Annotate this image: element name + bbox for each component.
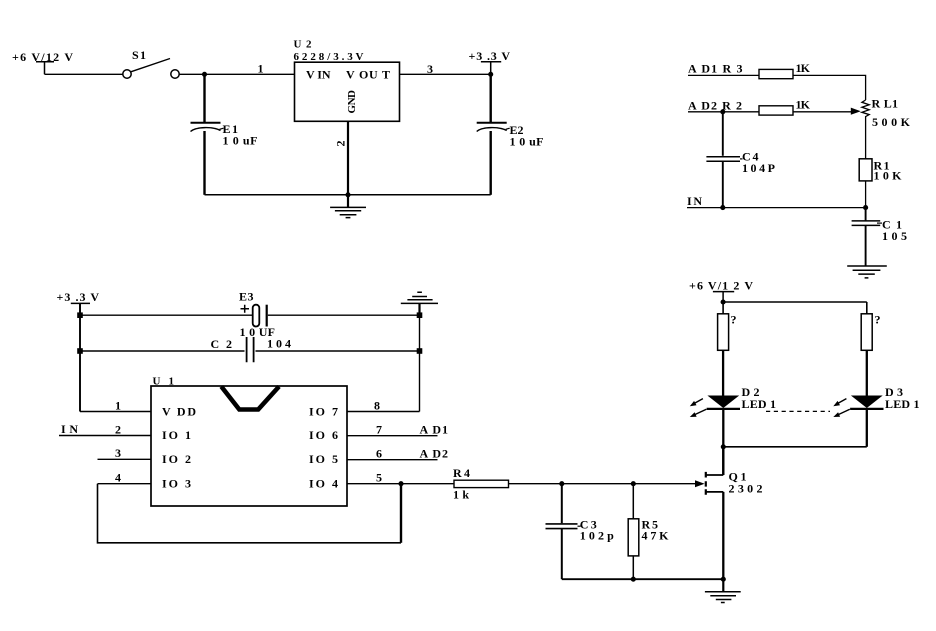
label E2 value <box>506 123 544 149</box>
svg-text:IN: IN <box>61 422 78 436</box>
svg-text:IO 4: IO 4 <box>309 476 338 490</box>
wire R3 to RL1 top <box>793 75 866 100</box>
junction node pin5 <box>398 481 403 486</box>
svg-text:E 3: E 3 <box>239 289 254 303</box>
pin number 7 <box>376 422 382 436</box>
svg-text:V IN: V IN <box>306 67 331 81</box>
capacitor C3 <box>546 484 578 580</box>
svg-text:+6 V/1 2 V: +6 V/1 2 V <box>689 278 753 292</box>
pin name VIN <box>306 67 331 81</box>
label 10K <box>874 169 903 183</box>
power +6V/12V label (bottom-right) <box>689 278 753 292</box>
svg-text:1 0 uF: 1 0 uF <box>223 134 258 148</box>
resistor R3 <box>759 69 793 78</box>
svg-text:1 0 4: 1 0 4 <box>267 337 291 351</box>
svg-text:+3 .3 V: +3 .3 V <box>469 49 511 63</box>
label C2 <box>211 337 233 351</box>
svg-text:IO 3: IO 3 <box>162 476 191 490</box>
pin name IO2 <box>162 452 191 466</box>
label C1 value <box>877 218 907 244</box>
svg-text:V DD: V DD <box>162 404 196 418</box>
label U1 <box>153 376 175 388</box>
label 6228/3.3V <box>294 51 364 63</box>
svg-text:5 0 0 K: 5 0 0 K <box>872 115 911 129</box>
label 500K <box>872 115 911 129</box>
cathode rail wire D2-D3 <box>723 446 867 448</box>
svg-text:3: 3 <box>427 62 433 76</box>
transistor Q1 (MOSFET) <box>695 447 723 579</box>
label 1k <box>453 488 469 502</box>
pin number 3 <box>115 446 121 460</box>
supply rail 1 (E3 rail) <box>80 314 420 316</box>
IC notch mark <box>221 387 279 410</box>
IN rail wire <box>687 207 866 209</box>
pin name VOUT <box>346 67 390 81</box>
junction node rail1 right <box>417 312 423 318</box>
junction node cathode rail <box>721 444 726 449</box>
pin 6 wire (AD2) <box>347 459 438 461</box>
svg-text:1 k: 1 k <box>453 488 469 502</box>
label ? (left) <box>731 313 737 327</box>
junction node C3 top <box>559 481 564 486</box>
svg-text:1 0 2 p: 1 0 2 p <box>580 529 614 543</box>
pin name IO5 <box>309 452 338 466</box>
label R4 <box>453 466 470 480</box>
capacitor C1 <box>852 208 881 266</box>
capacitor E2 <box>477 74 507 195</box>
resistor R2 <box>759 106 793 115</box>
pin 3 wire <box>98 458 152 460</box>
wire ? to D2 anode <box>722 350 724 395</box>
ground rail wire (top-left) <box>205 194 491 196</box>
label ? (right) <box>875 313 881 327</box>
label 104 (C2) <box>267 337 291 351</box>
svg-text:1: 1 <box>258 61 264 75</box>
svg-text:4: 4 <box>115 471 121 485</box>
label AD2 R2 <box>688 98 742 112</box>
bottom ground rail wire <box>562 578 724 580</box>
pin name VDD <box>162 404 196 418</box>
wire ? to D3 anode <box>866 350 868 395</box>
left vertical rail x=80 <box>79 303 81 411</box>
svg-text:R L1: R L1 <box>872 97 899 111</box>
wire R1 to IN rail <box>865 181 867 208</box>
resistor R1 <box>859 159 872 181</box>
pin name IO7 <box>309 404 338 418</box>
svg-text:6 2 2 8 / 3 . 3 V: 6 2 2 8 / 3 . 3 V <box>294 51 364 63</box>
potentiometer RL1 <box>862 100 869 159</box>
label 1K (R3) <box>796 61 811 75</box>
pin number 3 of U2 <box>427 62 433 76</box>
svg-text:2 3 0 2: 2 3 0 2 <box>729 482 763 496</box>
wire to left ? resistor <box>722 302 724 314</box>
LED D3 <box>833 396 883 418</box>
label RL1 <box>872 97 899 111</box>
capacitor E1 <box>191 74 221 195</box>
svg-text:6: 6 <box>376 447 382 461</box>
svg-text:1 0 5: 1 0 5 <box>882 229 907 243</box>
capacitor E3 (polarized) <box>253 305 267 327</box>
svg-text:U 1: U 1 <box>153 376 175 388</box>
wire D2 cathode down to Q1 drain <box>722 409 724 475</box>
pin number 1 of U2 <box>258 61 264 75</box>
svg-text:8: 8 <box>374 398 380 412</box>
label D3 <box>885 385 903 399</box>
pin number 5 <box>376 471 382 485</box>
inverted ground symbol (top right of U1) <box>401 292 438 303</box>
ground symbol under C1 <box>847 266 887 278</box>
plus sign of E3 <box>241 305 250 313</box>
label S1 <box>132 48 146 62</box>
wire AD2 to R2 <box>688 111 759 113</box>
pin 8 wire <box>347 411 420 413</box>
svg-text:2: 2 <box>334 141 348 147</box>
junction node rail1 left <box>77 312 83 318</box>
label R1 <box>874 159 890 173</box>
pin name GND (rotated) <box>346 90 358 114</box>
pin number 2 <box>115 422 121 436</box>
svg-text:IO 6: IO 6 <box>309 428 338 442</box>
svg-text:1 0 K: 1 0 K <box>874 169 903 183</box>
pin number 4 <box>115 471 121 485</box>
pin number 6 <box>376 447 382 461</box>
svg-text:C 2: C 2 <box>211 337 233 351</box>
resistor R4 <box>454 480 509 487</box>
svg-text:R 4: R 4 <box>453 466 470 480</box>
pin name IO4 <box>309 476 338 490</box>
wire D3 cathode to rail <box>866 409 868 447</box>
svg-text:S 1: S 1 <box>132 48 146 62</box>
ground symbol under U2 <box>330 195 366 218</box>
wire R4 to Q1 gate <box>509 483 697 485</box>
power bar symbol +6V/12V right <box>713 292 734 302</box>
power +3.3V label (top) <box>469 49 511 63</box>
label 10 UF <box>240 325 276 339</box>
svg-text:5: 5 <box>376 471 382 485</box>
label E1 value <box>220 122 258 148</box>
supply rail 2 (C2 rail) <box>80 350 420 352</box>
U2 pin2 wire to ground rail <box>347 121 349 195</box>
svg-text:IN: IN <box>687 194 702 208</box>
junction node at U2 ground <box>345 192 350 197</box>
junction node C4/IN <box>720 205 725 210</box>
junction node rail2 right <box>417 348 423 354</box>
wire: +6V to switch S1 <box>45 73 123 75</box>
pin number 2 (rotated) <box>334 141 348 147</box>
dashed link between D2 and D3 <box>766 410 830 412</box>
label C3 value <box>578 517 615 542</box>
junction node R5 bottom <box>631 577 636 582</box>
power +6V/12V label (top-left) <box>12 50 73 64</box>
power bar symbol +6V/12V <box>36 62 54 75</box>
switch S1 <box>123 59 179 79</box>
label AD1 R3 <box>688 62 743 76</box>
LED D2 <box>690 396 740 418</box>
label AD1 (pin7) <box>420 422 449 436</box>
wire: U2 pin3 to +3.3V <box>400 73 491 75</box>
svg-text:+3 .3 V: +3 .3 V <box>57 290 100 304</box>
ground symbol under Q1 <box>705 579 741 602</box>
pin number 8 <box>374 398 380 412</box>
pin number 1 <box>115 398 121 412</box>
svg-text:IO 5: IO 5 <box>309 452 338 466</box>
svg-text:GND: GND <box>346 90 358 114</box>
label LED1 (D3) <box>885 397 920 411</box>
wire: switch to U2 pin1 <box>179 73 294 75</box>
junction node R1/C1/IN <box>863 205 868 210</box>
pin name IO6 <box>309 428 338 442</box>
svg-text:1 0 4 P: 1 0 4 P <box>742 161 775 175</box>
wire R2 to RL1 wiper arrow <box>793 108 861 115</box>
label E3 <box>239 289 254 303</box>
pin name IO1 <box>162 428 191 442</box>
svg-text:IO 2: IO 2 <box>162 452 191 466</box>
resistor R5 <box>628 484 639 580</box>
label U2 <box>294 39 313 51</box>
pin 5 wire to R4 <box>347 483 454 485</box>
resistor ? (left) <box>718 314 729 351</box>
svg-text:2: 2 <box>115 422 121 436</box>
svg-text:1 K: 1 K <box>796 98 811 112</box>
capacitor C4 <box>706 112 740 208</box>
wire to right ? resistor <box>866 302 868 314</box>
label IN (left) <box>61 422 78 436</box>
junction node at E1 top <box>202 72 207 77</box>
label R5 value <box>642 517 670 542</box>
junction node at E2 top <box>488 72 493 77</box>
svg-text:4 7 K: 4 7 K <box>642 529 670 543</box>
svg-text:?: ? <box>731 313 737 327</box>
svg-text:U 2: U 2 <box>294 39 313 51</box>
label 2302 <box>729 482 763 496</box>
power bar symbol +3.3V <box>481 62 501 75</box>
label IN (top-right) <box>687 194 702 208</box>
svg-text:A D2: A D2 <box>420 447 449 461</box>
svg-text:?: ? <box>875 313 881 327</box>
label 1K (R2) <box>796 98 811 112</box>
capacitor C2 <box>247 337 254 362</box>
svg-text:IO 1: IO 1 <box>162 428 191 442</box>
junction node rail2 left <box>77 348 83 354</box>
svg-text:1 K: 1 K <box>796 61 811 75</box>
junction node R5 top <box>631 481 636 486</box>
svg-text:LED 1: LED 1 <box>885 397 920 411</box>
junction node top supply <box>721 299 726 304</box>
pin 1 wire <box>80 411 151 413</box>
right vertical rail x=419.5 <box>418 303 420 411</box>
label LED1 (D2) <box>742 397 777 411</box>
svg-text:V OU T: V OU T <box>346 67 390 81</box>
svg-text:LED 1: LED 1 <box>742 397 777 411</box>
pin name IO3 <box>162 476 191 490</box>
label D2 <box>742 385 760 399</box>
pin 4 wire <box>98 483 152 485</box>
junction node Q1 source bottom <box>721 577 726 582</box>
label AD2 (pin6) <box>420 447 449 461</box>
regulator U2 box <box>295 62 400 121</box>
svg-text:1 0 uF: 1 0 uF <box>510 135 544 149</box>
IC U1 box <box>151 386 347 506</box>
svg-text:1: 1 <box>115 398 121 412</box>
junction node AD2/C4 <box>720 109 725 114</box>
pin 7 wire (AD1) <box>347 435 438 437</box>
power bar symbol +3.3V left <box>71 303 90 315</box>
svg-text:IO 7: IO 7 <box>309 404 338 418</box>
pin4 loop wire to pin5 junction <box>98 484 402 543</box>
svg-text:3: 3 <box>115 446 121 460</box>
label Q1 <box>729 469 747 483</box>
label C4 value <box>740 150 775 176</box>
svg-text:A D1: A D1 <box>420 422 449 436</box>
power +3.3V label (left) <box>57 290 100 304</box>
supply top rail wire <box>723 301 867 303</box>
wire AD1 to R3 <box>688 74 759 76</box>
svg-text:7: 7 <box>376 422 382 436</box>
pin 2 wire <box>59 435 151 437</box>
resistor ? (right) <box>861 314 872 351</box>
